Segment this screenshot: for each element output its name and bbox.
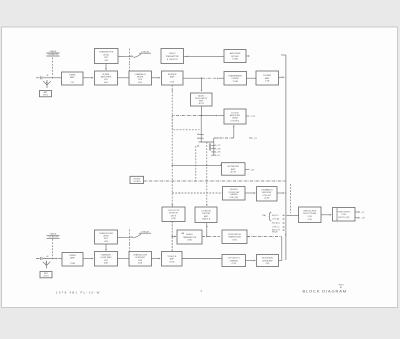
connector stack B pins [213, 138, 215, 155]
svg-text:CPLG: CPLG [43, 276, 49, 278]
svg-text:CPLG: CPLG [43, 95, 49, 97]
wire T1 down to U2 [105, 64, 107, 70]
connector stack A pins [200, 116, 202, 143]
svg-text:(17B): (17B) [308, 219, 313, 221]
wire B2 output dash-dot to riser [247, 236, 282, 238]
wire dashed drop to demod [290, 184, 292, 213]
svg-text:TRANSDUCER: TRANSDUCER [99, 232, 113, 235]
wire U3 to U4 [152, 77, 161, 79]
wire bus to B1 shield [172, 236, 173, 237]
svg-text:LOCATION: LOCATION [48, 235, 59, 238]
amplifier L1 TUNED AMP (lower) [62, 253, 83, 267]
svg-text:TRANSDUCER: TRANSDUCER [228, 236, 242, 239]
wire CP to bus [277, 192, 284, 194]
wire relay K1 drop to bus [129, 64, 131, 78]
svg-text:(17B): (17B) [232, 263, 237, 265]
antenna symbol (lower) [43, 261, 51, 269]
svg-text:TUNED B: TUNED B [167, 256, 176, 258]
wire antenna to U1 (upper) [49, 77, 62, 79]
filter CR CRYSTAL FILTER [222, 255, 246, 267]
svg-text:MODULATION: MODULATION [228, 233, 241, 236]
wire altimeter feed [172, 165, 173, 166]
svg-text:SIGNAL: SIGNAL [102, 73, 110, 76]
amplifier U4 BUFFER AMP [162, 71, 184, 85]
svg-text:DETECTOR AMP: DETECTOR AMP [303, 212, 317, 215]
svg-text:AMP: AMP [265, 77, 270, 80]
svg-text:SIG (A+L): SIG (A+L) [272, 222, 280, 225]
discriminator DS LOCATION DISCRIMINATOR [195, 207, 217, 223]
amplifier D1 DC MOD AMPLIFIER [224, 109, 246, 124]
wire antenna to L1 (lower) [49, 258, 57, 260]
svg-text:CONTROL: CONTROL [230, 120, 239, 122]
svg-text:DRIVER: DRIVER [232, 78, 240, 80]
wire stack B into discriminator [206, 142, 208, 206]
svg-text:BLOCK DIAGRAM: BLOCK DIAGRAM [303, 288, 347, 293]
label SOUND LOCATION [130, 176, 144, 183]
svg-text:AMP: AMP [170, 258, 175, 261]
svg-text:CHECK: CHECK [169, 53, 176, 55]
svg-text:V 1BB: V 1BB [232, 59, 238, 61]
wire node J1 left dash-dot [172, 115, 201, 117]
svg-text:(2B): (2B) [266, 263, 270, 265]
svg-text:(74B) (74B): (74B) (74B) [229, 197, 238, 199]
wire D1 bottom feed [233, 126, 235, 139]
svg-text:TRANSMITTER: TRANSMITTER [99, 51, 114, 54]
relay K2 (lower) [118, 236, 127, 238]
svg-text:L RELAY: L RELAY [141, 50, 150, 53]
amplifier L2 TRANSMIT LEVEL (lower) [95, 252, 118, 267]
relay K1 (upper) [118, 55, 127, 57]
wire dotted drop stack A [195, 146, 197, 181]
wire L1 to L2 [83, 258, 93, 260]
power supply PS [333, 208, 356, 222]
node antenna input coupling capacitor (upper) [36, 76, 49, 79]
wire relay K2 drop to bus [129, 244, 131, 259]
svg-text:AMPLIFIER: AMPLIFIER [230, 114, 241, 117]
transmitter B1 SHIELD TRANSMITTER [177, 230, 202, 244]
wire cable-location drop (lower) [51, 239, 53, 257]
wire U6 to U7 [247, 77, 257, 79]
svg-text:CHANNEL B: CHANNEL B [135, 73, 147, 76]
svg-text:MIXER AMP: MIXER AMP [263, 259, 274, 262]
svg-text:DEMODULATOR: DEMODULATOR [303, 209, 317, 212]
bus main vertical cable run [285, 55, 287, 260]
driver U6 TRANSPARENT DRIVER [224, 72, 247, 86]
wire sound-location dash-dot run [144, 180, 286, 182]
modulator M1 AUDIO MODULATOR [191, 93, 213, 106]
svg-text:L RELAY: L RELAY [141, 230, 150, 233]
svg-text:CHANNEL: CHANNEL [230, 193, 238, 196]
wire U2 to U3 [118, 77, 130, 79]
svg-text:AMPLIFIER: AMPLIFIER [101, 76, 112, 79]
svg-text:B 17B A 17B: B 17B A 17B [167, 58, 178, 61]
wire discriminator down [206, 223, 208, 237]
svg-text:CABLE: CABLE [50, 232, 57, 235]
svg-text:TRANSMITTER: TRANSMITTER [183, 236, 197, 239]
wire U4 to U6 [183, 77, 202, 79]
svg-text:AMPLIFIER: AMPLIFIER [230, 52, 241, 55]
svg-text:ALTIMETER: ALTIMETER [228, 165, 240, 168]
svg-text:MODULATED: MODULATED [262, 257, 274, 260]
label +1 stub right of D1 feed [249, 137, 253, 139]
comparator CP COMPARATOR AMPLIFIER [257, 187, 278, 202]
svg-text:A 17B: A 17B [231, 171, 237, 174]
svg-text:(PA): (PA) [262, 214, 266, 217]
svg-text:LOCATION: LOCATION [201, 210, 211, 213]
svg-text:LYNN: LYNN [308, 216, 313, 218]
label +2B PS output b [355, 217, 360, 219]
svg-text:AMP: AMP [199, 100, 204, 103]
wire T3 down to L2 [105, 244, 107, 250]
svg-text:V 1BB: V 1BB [233, 81, 239, 83]
svg-text:AMP: AMP [70, 257, 75, 260]
node feed arrowhead left [217, 137, 219, 139]
svg-text:DELAYED: DELAYED [230, 188, 239, 191]
node bus up-arrow near cluster [285, 234, 286, 236]
mixer U3 CHANNEL MIXER [129, 71, 152, 85]
svg-text:A1B: A1B [138, 262, 142, 265]
svg-text:+27: +27 [361, 212, 364, 214]
label ANT (lower) [40, 272, 52, 278]
svg-text:AMPLIFIER: AMPLIFIER [262, 191, 272, 194]
svg-text:DC MOD: DC MOD [231, 112, 239, 114]
svg-text:AUDIO: AUDIO [198, 94, 205, 97]
node B1 internal arrow [182, 233, 184, 234]
transmitter T2 CHECK TRANSMITTER [161, 49, 184, 64]
svg-text:A 17B: A 17B [199, 102, 205, 105]
svg-text:MONITOR: MONITOR [169, 213, 179, 215]
svg-text:DISCRIM: DISCRIM [202, 213, 210, 215]
svg-text:CHANNEL: CHANNEL [230, 259, 239, 262]
svg-text:TRACK B: TRACK B [202, 218, 211, 221]
svg-text:MIXER: MIXER [137, 77, 144, 79]
power supply PS divider [336, 208, 338, 222]
svg-text:AMP: AMP [170, 76, 175, 79]
svg-text:COMPARATOR: COMPARATOR [261, 189, 274, 192]
svg-text:(17B): (17B) [169, 261, 174, 263]
svg-text:DET B: DET B [171, 215, 177, 217]
svg-text:(17B): (17B) [171, 218, 176, 220]
svg-text:AMP: AMP [70, 76, 75, 79]
svg-text:AGRA: AGRA [232, 117, 238, 120]
amplifier U1 TUNED AMP [62, 72, 84, 85]
svg-text:BLENDER: BLENDER [135, 257, 145, 259]
wire U7 to bus [279, 76, 285, 78]
wire M1 down to node J1 [201, 106, 203, 116]
svg-text:(204B): (204B) [264, 197, 270, 199]
amplifier L4 TUNED AMP B [162, 252, 183, 267]
svg-text:Y14B: Y14B [70, 263, 76, 265]
svg-text:LEVEL: LEVEL [103, 54, 110, 56]
svg-text:(17B): (17B) [187, 240, 192, 242]
driver U5 AMPLIFIER DRIVER [224, 50, 246, 63]
svg-text:B1B: B1B [138, 260, 142, 262]
wire L2 to L3 [118, 258, 130, 260]
wire U5 output stub [246, 55, 249, 57]
svg-text:TRANSMITTER: TRANSMITTER [165, 55, 179, 58]
label +27 PS output a [355, 211, 360, 213]
svg-text:AMP: AMP [231, 168, 236, 171]
svg-text:POWER: POWER [263, 75, 271, 77]
svg-text:+27V: +27V [251, 116, 256, 118]
svg-text:1978 4B1 PL-10-W: 1978 4B1 PL-10-W [56, 291, 101, 295]
channel DL DELAYED CROSSOVER [223, 187, 246, 201]
mixer MA MODULATED AMP [257, 255, 279, 267]
svg-text:RELAY: RELAY [272, 231, 279, 234]
wire left riser corner [172, 116, 199, 130]
node left riser arrowhead [172, 90, 173, 92]
svg-text:LOCATN: LOCATN [133, 180, 141, 183]
wire delayed-crossover left link [172, 192, 222, 194]
wire L3 to L4 [152, 258, 161, 260]
label ANT (upper) [40, 91, 52, 97]
svg-text:TRANSDUCER: TRANSDUCER [133, 254, 147, 257]
svg-text:LTB2: LTB2 [232, 239, 236, 241]
svg-text:MODULATOR: MODULATOR [195, 97, 208, 100]
wire U5 to T2 [184, 55, 225, 57]
svg-text:CRYSTAL FILT: CRYSTAL FILT [228, 257, 241, 260]
svg-text:SUPPLY (17B): SUPPLY (17B) [338, 217, 350, 219]
svg-text:DRIVER: DRIVER [231, 56, 239, 58]
svg-text:+27V (A): +27V (A) [272, 218, 280, 221]
wire B1 to B2 dash-dot [202, 236, 219, 238]
label +28 at A1 output [245, 168, 250, 170]
wire tap down to M1 [201, 78, 203, 91]
wire CR to MA [246, 260, 256, 262]
svg-text:COLLECTOR: COLLECTOR [168, 210, 180, 212]
monitor C1 COLLECTOR [162, 207, 185, 222]
svg-text:AMP: AMP [204, 215, 209, 218]
bus left dashed riser [171, 85, 173, 252]
svg-text:LOCATION: LOCATION [48, 53, 59, 56]
wire bus into collector [171, 204, 173, 206]
svg-text:TRANSPARENT: TRANSPARENT [228, 74, 243, 77]
node antenna input coupling capacitor (lower) [36, 257, 49, 260]
svg-text:SIG IN +: SIG IN + [272, 215, 279, 217]
amplifier A1 ALTIMETER [222, 163, 246, 176]
svg-text:POWER SUPPLY: POWER SUPPLY [337, 211, 351, 213]
wire node J1 to D1 [202, 115, 217, 117]
svg-text:LEVEL: LEVEL [103, 236, 110, 238]
svg-text:SHIELD: SHIELD [186, 234, 193, 236]
wire dc feed dash-dot [214, 137, 234, 139]
svg-text:TRANSMIT: TRANSMIT [101, 254, 112, 257]
transducer T3 LEVEL SET (lower) [95, 230, 118, 244]
wire collector down [171, 222, 173, 252]
wire cable-location drop (upper) [51, 58, 53, 77]
svg-text:LYNN: LYNN [342, 214, 347, 216]
svg-text:V 2B: V 2B [265, 81, 270, 83]
wire L4 to CR [182, 258, 222, 260]
svg-text:CABLE: CABLE [50, 50, 57, 53]
wire MA output to riser [279, 260, 282, 262]
wire DL to CP [245, 192, 255, 194]
label +27V at D1 output [246, 115, 250, 117]
amplifier U7 POWER AMP [256, 71, 279, 85]
amplifier U2 SIGNAL AMPLIFIER [95, 71, 118, 85]
transducer B2 MODULATION TRANSDUCER [222, 230, 247, 244]
wire bus to demodulator [287, 215, 300, 217]
svg-text:A1B: A1B [104, 262, 108, 265]
wire U1 to U2 [83, 77, 93, 79]
svg-text:LEVEL AMP: LEVEL AMP [101, 256, 113, 259]
blender L3 TRANSDUCER BLENDER [129, 252, 152, 267]
antenna symbol (upper) [43, 80, 51, 88]
svg-text:+TBK (+): +TBK (+) [272, 227, 280, 229]
demodulator DM DETECTOR AMP [299, 207, 322, 223]
wire DM to PS [321, 214, 331, 216]
transmitter T1 LEVEL SET [95, 49, 119, 64]
